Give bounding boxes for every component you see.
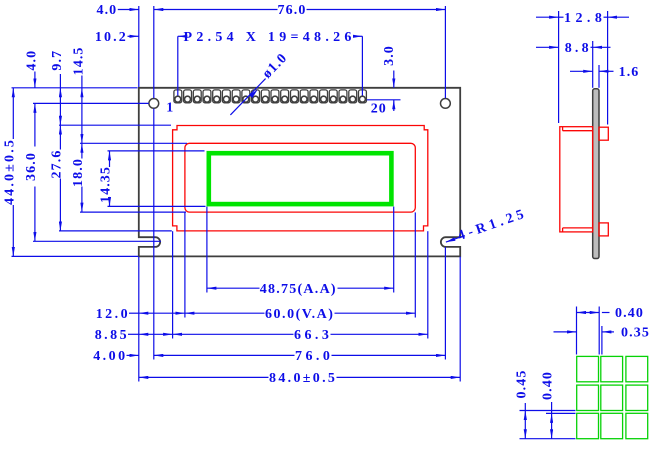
label ø1.0 (pin hole diameter) xyxy=(260,50,291,81)
dimension 12.0 xyxy=(96,307,185,322)
dimension 0.40 (dot height) xyxy=(541,371,556,439)
green active-area thick rectangle (A.A) xyxy=(209,153,392,204)
dimension 4.00 xyxy=(93,349,139,364)
dimension 66.3 xyxy=(173,328,428,343)
svg-text:14.35: 14.35 xyxy=(99,166,114,203)
top connector pin (side view) xyxy=(599,127,608,140)
svg-text:4.00: 4.00 xyxy=(93,349,126,364)
extension line right slot (bottom) xyxy=(444,247,446,359)
svg-text:27.6: 27.6 xyxy=(49,150,64,179)
leader line for slot radius xyxy=(446,237,460,242)
dimension 27.6 (bezel height) xyxy=(49,125,64,231)
svg-text:8.8: 8.8 xyxy=(565,41,590,56)
svg-text:4.0: 4.0 xyxy=(24,50,39,71)
3x3 dot matrix pixel detail (green squares) xyxy=(577,356,648,438)
extension line dot row 3 bottom xyxy=(520,438,576,440)
extension line bezel left (bottom) xyxy=(172,231,174,338)
label 4-R1.25 (slot radius) xyxy=(456,207,527,244)
dimension 4.0 (hole from top edge) xyxy=(24,50,39,88)
extension line connector back face xyxy=(607,11,609,125)
extension line bezel bottom (left) xyxy=(59,230,172,232)
svg-text:36.0: 36.0 xyxy=(24,152,39,181)
dimension 12.8 (overall thickness) xyxy=(536,11,629,26)
svg-text:0.35: 0.35 xyxy=(621,326,650,341)
20-pin header row (pins 1-20) xyxy=(174,90,367,103)
extension line dot right edge xyxy=(598,307,600,355)
left mounting hole xyxy=(149,99,159,109)
extension line V.A. left (bottom) xyxy=(184,212,186,317)
leader line for hole diameter xyxy=(230,79,265,115)
svg-text:4.0: 4.0 xyxy=(96,3,117,18)
LCD module body outline (front view) with two side slots xyxy=(139,88,460,257)
dimension 60.0(V.A) xyxy=(185,307,415,322)
extension line body right (bottom) xyxy=(459,257,461,382)
extension line module front face xyxy=(558,11,560,123)
svg-text:8.85: 8.85 xyxy=(95,328,128,343)
extension line V.A. right (bottom) xyxy=(414,212,416,317)
right mounting hole xyxy=(441,99,451,109)
extension line dot row 3 top xyxy=(546,412,576,414)
dimension 8.85 xyxy=(95,328,173,343)
dimension 84.0±0.5 (overall width) xyxy=(139,371,460,386)
svg-text:12.0: 12.0 xyxy=(96,307,129,322)
dimension 0.45 (dot pitch vertical) xyxy=(514,370,529,439)
svg-text:60.0(V.A): 60.0(V.A) xyxy=(265,307,334,322)
label 1 (pin 1) xyxy=(166,101,174,116)
dimension 76.0 (top) xyxy=(154,3,446,18)
svg-text:66.3: 66.3 xyxy=(294,328,330,343)
svg-text:20: 20 xyxy=(371,102,387,117)
svg-text:P2.54 X 19=48.26: P2.54 X 19=48.26 xyxy=(184,30,353,45)
dimension 9.7 xyxy=(50,50,65,125)
extension line V.A. top (left) xyxy=(80,142,187,144)
extension line PCB front face xyxy=(592,41,594,88)
svg-text:ø1.0: ø1.0 xyxy=(260,50,291,81)
dimension 10.2 xyxy=(95,30,139,45)
bottom connector pin (side view) xyxy=(599,223,608,236)
extension line A.A bottom (left) xyxy=(108,205,206,207)
dimension 8.8 (module thickness) xyxy=(536,41,611,56)
dimension 18.0 (V.A. height) xyxy=(71,143,86,212)
svg-text:0.40: 0.40 xyxy=(615,306,644,321)
label 20 (pin 20) xyxy=(371,102,387,117)
extension line pin 1 centre xyxy=(177,36,179,95)
dimension 4.0 (top) xyxy=(96,3,138,18)
dimension 76.0 (bottom) xyxy=(154,349,446,364)
LCD display block (side view, red) xyxy=(560,127,593,232)
svg-text:9.7: 9.7 xyxy=(50,50,65,71)
red viewing-area rounded rectangle (V.A.) xyxy=(185,143,415,212)
extension line dot left edge xyxy=(576,307,578,355)
dimension 0.35 (dot pitch) xyxy=(554,326,650,341)
extension line PCB back face xyxy=(598,65,600,88)
dimension 36.0 (hole to slot centre) xyxy=(24,103,39,241)
svg-text:76.0: 76.0 xyxy=(295,349,331,364)
extension line dot row 2 bottom xyxy=(520,410,576,412)
svg-text:44.0±0.5: 44.0±0.5 xyxy=(2,139,17,205)
extension line body bottom (left) xyxy=(12,255,139,257)
extension line V.A. bottom (left) xyxy=(80,211,186,213)
svg-text:0.40: 0.40 xyxy=(541,371,556,400)
dimension 48.75(A.A) xyxy=(207,282,394,297)
PCB board (side view) xyxy=(593,89,599,259)
svg-text:18.0: 18.0 xyxy=(71,158,86,187)
pin bottom reference line xyxy=(367,99,401,101)
extension line left hole centre (top) xyxy=(153,6,155,98)
dimension 14.5 xyxy=(71,46,86,143)
svg-text:1.6: 1.6 xyxy=(619,65,640,80)
dimension P2.54 X 19=48.26 xyxy=(178,30,363,45)
red bezel frame outline (stepped corners) xyxy=(173,126,428,231)
extension line next dot left edge xyxy=(601,326,603,355)
svg-text:12.8: 12.8 xyxy=(564,11,603,26)
dimension 14.35 (A.A height) xyxy=(99,151,114,207)
extension line bezel top (left) xyxy=(59,124,171,126)
extension line right hole centre (top) xyxy=(444,6,446,98)
svg-text:14.5: 14.5 xyxy=(71,46,86,75)
extension line hole centre (bottom) xyxy=(153,109,155,360)
extension line body left (bottom) xyxy=(138,256,140,381)
svg-text:84.0±0.5: 84.0±0.5 xyxy=(269,371,336,386)
svg-text:4-R1.25: 4-R1.25 xyxy=(456,207,527,244)
dimension 1.6 (PCB thickness) xyxy=(570,65,639,80)
extension line slot centre (left) xyxy=(33,240,161,242)
extension line hole centre (left) xyxy=(33,102,149,104)
svg-text:1: 1 xyxy=(166,101,174,116)
svg-text:0.45: 0.45 xyxy=(514,370,529,399)
extension line bezel right (bottom) xyxy=(427,231,429,338)
svg-text:10.2: 10.2 xyxy=(95,30,127,45)
dimension 0.40 (dot width) xyxy=(577,306,644,321)
extension line body top (left) xyxy=(12,87,138,89)
extension line A.A right (bottom) xyxy=(393,207,395,293)
extension line A.A top (left) xyxy=(108,150,205,152)
svg-text:3.0: 3.0 xyxy=(382,45,397,66)
extension line pin 20 centre xyxy=(361,36,363,95)
extension line A.A left (bottom) xyxy=(206,207,208,293)
extension line body left edge (top) xyxy=(138,6,140,87)
dimension 3.0 (pin protrusion) xyxy=(382,45,397,111)
svg-text:48.75(A.A): 48.75(A.A) xyxy=(260,282,337,297)
dimension 44.0±0.5 (overall height) xyxy=(2,88,17,257)
svg-text:76.0: 76.0 xyxy=(278,3,307,18)
